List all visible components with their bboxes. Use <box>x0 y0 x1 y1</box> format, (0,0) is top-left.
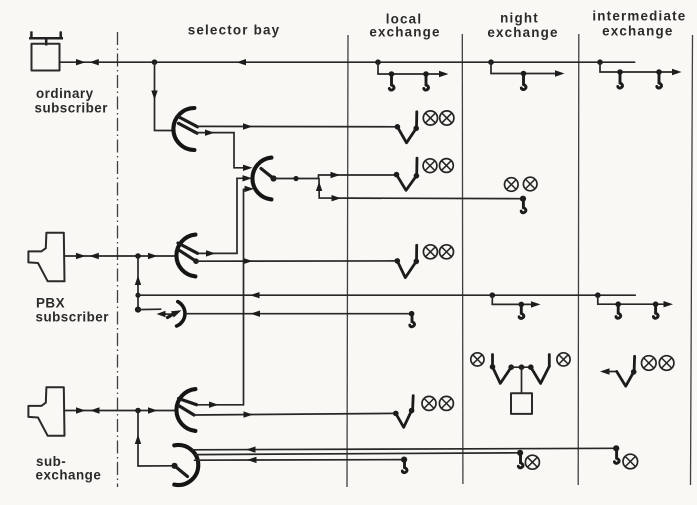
arrow: down into selector S1 <box>151 91 157 101</box>
arrow: up on sub-exchange branch <box>135 435 141 445</box>
junction: night exchange multiple tap <box>488 59 494 65</box>
arrow: on S1 wiper-1 wire <box>243 123 253 129</box>
label: night exchange <box>487 10 558 40</box>
arrow: up on PBX branch <box>135 276 141 286</box>
arrow: into selector S3 <box>148 253 158 259</box>
contact stub: row 2 <box>415 158 418 175</box>
svg-text:selector bay: selector bay <box>188 23 281 38</box>
arrow: junction line 1 incoming <box>246 446 256 452</box>
junction: local exchange multiple tap <box>375 59 381 65</box>
svg-text:exchange: exchange <box>369 25 440 40</box>
night-service switch arc <box>177 302 185 326</box>
selector S1 wiper 2 <box>179 123 198 133</box>
jack contact: night <box>521 74 526 90</box>
svg-text:exchange: exchange <box>602 23 673 38</box>
junction: line-1 lamp tap <box>613 445 619 451</box>
selector S4 bank arc <box>176 389 195 431</box>
svg-text:ordinary: ordinary <box>36 86 94 101</box>
arrow: intermediate multiple outgoing <box>672 69 682 75</box>
junction: jack 2 tap <box>423 71 429 77</box>
junction: row-3 contact right <box>414 259 420 265</box>
selector S1 wiper 1 <box>178 117 198 127</box>
svg-text:exchange: exchange <box>487 25 558 40</box>
wire: night concentration drop <box>521 367 523 393</box>
wire: junction line 3 <box>195 459 405 462</box>
contact arm: night-service <box>160 313 173 315</box>
contact stub: row 4 <box>411 396 414 410</box>
column boundary: local / night exchange <box>461 34 464 484</box>
junction: subscriber line / first selector feed <box>152 59 158 65</box>
junction: row-2 contact <box>394 172 400 178</box>
wire: PBX down branch <box>137 256 139 310</box>
lamp: intermediate row 4 B <box>659 356 674 371</box>
wire: S1 wiper 2 down to selector S2 <box>197 133 248 168</box>
wire: return line from exchanges <box>138 294 635 296</box>
contact stub: night concentration right <box>548 355 551 367</box>
lamp: row 3 supervisory B <box>440 245 454 259</box>
junction: night return tap <box>490 292 496 298</box>
selector S5 bank arc <box>174 445 198 485</box>
label: sub-exchange <box>36 454 102 483</box>
wire: night return jack multiple <box>492 295 536 304</box>
lamp: row 4 supervisory B <box>439 396 453 410</box>
junction: night concentration centre <box>519 364 525 370</box>
junction: line-2 lamp tap <box>517 450 523 456</box>
arrow: on S3 wiper-2 wire <box>243 258 253 264</box>
selector S3 wiper 2 <box>179 250 197 261</box>
break contact: row 3 <box>397 261 416 278</box>
wire: S3 wiper 2 to local exchange <box>196 260 397 262</box>
break contact: row 4 <box>396 411 412 428</box>
junction: intermediate jack 2 tap <box>656 69 662 75</box>
wire: S4 wiper 1 up to selector S2 <box>198 189 250 404</box>
junction: end of night-service return <box>409 311 415 317</box>
jack contact: intermediate return 1 <box>616 304 621 318</box>
column boundary: subscriber / selector bay (dash-dot) <box>117 32 119 487</box>
wire: junction line 2 <box>196 453 521 455</box>
junction: night concentration inner right <box>528 364 534 370</box>
lamp: intermediate row 4 A <box>642 356 657 371</box>
svg-text:night: night <box>500 10 539 25</box>
sub-exchange symbol <box>28 387 64 436</box>
junction: jack 1 tap <box>389 71 395 77</box>
junction: intermediate return jack 2 <box>653 301 659 307</box>
arrow: into S2 input 1 <box>243 165 253 171</box>
arrow: into S2 input 3 <box>245 186 255 192</box>
arrow: intermediate incoming junction <box>600 368 610 374</box>
arrow: on S4 wiper-1 wire <box>209 402 219 408</box>
selector S2 bank arc <box>252 158 271 200</box>
arrow: night return outgoing <box>531 301 541 307</box>
selector S1 bank arc <box>173 108 194 150</box>
junction: night lamp tap <box>520 196 526 202</box>
column boundary: right edge of intermediate exchange <box>691 35 693 485</box>
junction: night jack tap <box>521 71 527 77</box>
lamp: row 2 night B <box>523 177 537 191</box>
lamp: night concentration right <box>557 353 570 366</box>
arrow: branch up <box>316 182 322 192</box>
column boundary: night / intermediate exchange <box>577 34 580 485</box>
selector S2 wiper <box>261 169 274 179</box>
selector S3 bank arc <box>176 235 195 277</box>
night switchboard <box>511 393 532 414</box>
lamp: row 4 supervisory A <box>422 396 436 410</box>
junction: row-4 contact <box>393 411 399 417</box>
lamp: row 2 night A <box>505 178 519 192</box>
wire: PBX line <box>65 255 175 257</box>
wire: subscriber line to exchanges <box>60 61 635 63</box>
wire: intermediate junction stub <box>609 371 617 373</box>
lamp holder contact: line 2 <box>518 453 523 468</box>
selector S4 wiper 2 <box>179 406 195 416</box>
jack contact: night-service return <box>410 314 415 327</box>
contact stub: night concentration left <box>491 355 494 367</box>
arrow: local multiple outgoing <box>439 71 449 77</box>
junction: intermediate row-4 contact <box>631 369 637 375</box>
wire: night exchange jack multiple <box>491 62 560 73</box>
junction: PBX line / down branch <box>135 253 141 259</box>
wire: S1 wiper 1 to local exchange <box>198 125 398 127</box>
jack contact: local 2 <box>424 74 429 90</box>
arrow: S2 output to local <box>331 172 341 178</box>
lamp: row 3 supervisory A <box>423 245 437 259</box>
wire: return to night-service switch <box>186 313 412 315</box>
wire: S3 wiper 1 up to selector S2 <box>198 178 247 253</box>
wire: sub-exchange line <box>65 410 175 412</box>
svg-text:subscriber: subscriber <box>35 101 109 116</box>
arrow: branch to night exchange <box>332 195 342 201</box>
arrow: outgoing on sub-exchange line <box>76 407 86 413</box>
arrow: on S3 wiper-1 wire <box>206 250 216 256</box>
junction: row-1 contact <box>395 124 401 130</box>
selector S5 wiper <box>175 466 188 477</box>
junction: return line tap <box>135 293 140 298</box>
lamp: night concentration left <box>471 353 484 366</box>
wire: intermediate exchange jack multiple <box>600 62 677 72</box>
junction: S3 wiper-2 hub <box>193 258 199 264</box>
junction: row-4 contact right <box>409 408 415 414</box>
junction: intermediate return tap <box>595 292 601 298</box>
junction: row-2 contact right <box>414 173 420 179</box>
junction: night concentration left <box>490 364 496 370</box>
arrow: toward night-service switch <box>251 311 261 317</box>
break contact: night concentration left <box>493 367 512 384</box>
break contact: night concentration right <box>531 366 550 383</box>
lamp: row 2 supervisory B <box>440 159 454 173</box>
arrow: into selector S4 <box>148 407 158 413</box>
junction: night-service branch <box>135 307 141 313</box>
telephone set: ordinary subscriber body <box>32 44 60 71</box>
break contact: row 1 <box>397 127 416 143</box>
junction: row-1 contact right <box>413 126 419 132</box>
wire: S4 wiper 2 to local exchange <box>194 413 396 415</box>
arrow: into S2 input 2 <box>243 175 253 181</box>
wire: night-service fixed contact <box>138 308 161 310</box>
contact stub: row 1 <box>415 112 418 128</box>
arrow: intermediate return outgoing <box>664 301 674 307</box>
wire: feed to selector S1 <box>155 62 175 130</box>
junction: S5 wiper hub <box>171 463 177 469</box>
arrow: outgoing on subscriber line <box>76 59 86 65</box>
junction: S2 wiper hub <box>270 175 276 181</box>
wire: sub-exchange down branch <box>138 411 175 467</box>
wire: S2 output <box>274 175 397 179</box>
arrow: incoming on subscriber line <box>89 59 99 65</box>
junction: row-3 contact <box>395 258 401 264</box>
svg-text:exchange: exchange <box>36 468 102 483</box>
jack contact: intermediate return 2 <box>653 304 658 318</box>
lamp: row 1 supervisory A <box>423 111 437 125</box>
arrow: on S4 wiper-2 wire <box>244 411 254 417</box>
contact stub: row 3 <box>415 245 418 261</box>
lamp holder contact: line 1 <box>614 448 619 463</box>
break contact: intermediate row 4 <box>617 372 634 387</box>
junction: sub-exchange line / down branch <box>135 408 141 414</box>
wire: junction line 1 <box>192 448 616 450</box>
arrow: back on contact arm <box>157 311 166 317</box>
arrow: incoming on PBX line <box>89 253 99 259</box>
arrow: into night-service switch <box>171 310 182 317</box>
telephone set: ordinary subscriber handset <box>30 33 62 45</box>
jack contact: intermediate 1 <box>618 72 623 88</box>
lamp: row 1 supervisory B <box>440 111 454 125</box>
lamp: junction line 1 <box>623 454 638 469</box>
junction: on S2 output <box>293 176 298 181</box>
svg-text:intermediate: intermediate <box>592 8 686 23</box>
wire: S2 branch to night lamps <box>319 179 523 199</box>
selector S4 wiper 1 <box>179 399 197 405</box>
arrow: junction line 3 incoming <box>247 457 257 463</box>
wire: night concentration bar <box>511 366 531 368</box>
arrow: incoming on sub-exchange line <box>90 407 100 413</box>
svg-text:PBX: PBX <box>36 296 65 311</box>
wire: local exchange jack multiple <box>378 62 444 74</box>
label: intermediate exchange <box>592 8 686 38</box>
arrow: on S1 wiper-2 wire <box>205 130 215 136</box>
lamp holder contact: line 3 <box>402 460 407 473</box>
wire: intermediate return jack multiple <box>598 295 668 304</box>
label: PBX subscriber <box>36 296 110 325</box>
break contact: row 2 <box>397 175 417 191</box>
label: ordinary subscriber <box>35 86 109 116</box>
junction: line-3 lamp tap <box>401 457 407 463</box>
arrow: night multiple outgoing <box>555 70 565 76</box>
selector S3 wiper 1 <box>178 243 198 253</box>
lamp: row 2 supervisory A <box>423 159 437 173</box>
label: local exchange <box>369 12 440 40</box>
jack contact: night return <box>519 304 524 318</box>
junction: night concentration inner left <box>508 364 514 370</box>
wiper: night-service switch <box>168 313 175 317</box>
jack contact: intermediate 2 <box>657 72 662 88</box>
arrow: return toward PBX <box>250 292 260 298</box>
junction: intermediate return jack 1 <box>615 301 621 307</box>
column boundary: selector bay / local exchange <box>347 35 348 487</box>
lamp: junction line 2 <box>525 455 539 469</box>
lamp holder contact: row 2 night <box>521 199 526 213</box>
arrow: outgoing on PBX line <box>76 253 86 259</box>
junction: intermediate jack 1 tap <box>617 69 623 75</box>
arrow: toward subscriber on trunk <box>237 59 247 65</box>
svg-text:subscriber: subscriber <box>36 309 110 324</box>
junction: intermediate exchange multiple tap <box>597 59 603 65</box>
jack contact: local 1 <box>389 74 394 90</box>
junction: night return jack tap <box>519 302 525 308</box>
contact stub: intermediate row 4 <box>633 356 636 371</box>
label: selector bay <box>188 23 281 38</box>
PBX subscriber symbol <box>28 233 64 282</box>
